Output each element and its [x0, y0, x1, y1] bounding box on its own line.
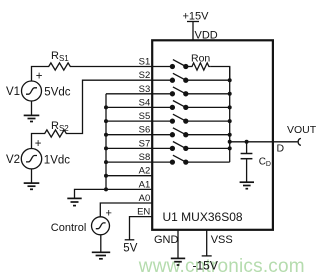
- node S5 tap: [104, 119, 108, 123]
- node bus S2: [228, 78, 232, 82]
- switch S5: [152, 114, 230, 123]
- switch S1: [152, 60, 191, 69]
- node S4 tap: [104, 105, 108, 109]
- svg-text:S1: S1: [139, 57, 151, 68]
- svg-text:CD: CD: [259, 156, 271, 168]
- switch S8: [152, 155, 230, 164]
- wire S6 pin: [106, 134, 152, 136]
- ground (V1): [24, 115, 40, 121]
- svg-text:S6: S6: [139, 125, 151, 136]
- node S6 tap: [104, 133, 108, 137]
- VDD power stub: [187, 22, 199, 41]
- wire V1 top to RS1: [32, 67, 47, 82]
- svg-text:Control: Control: [51, 222, 86, 234]
- wire V1 to ground: [31, 101, 33, 116]
- svg-text:GND: GND: [154, 234, 179, 246]
- node A1 tap: [104, 187, 108, 191]
- bus S3-A1 vertical: [105, 94, 107, 190]
- resistor Ron: [191, 63, 211, 70]
- svg-text:S2: S2: [139, 70, 151, 81]
- wire EN pin to 5V stub: [130, 217, 153, 240]
- source Control: [92, 217, 110, 235]
- wire V2 to ground: [31, 169, 33, 183]
- wire S5 pin: [106, 120, 152, 122]
- switch S6: [152, 128, 230, 137]
- wire S1 from RS1 to pin: [73, 66, 153, 68]
- ground (CD): [240, 182, 254, 189]
- wire S4 pin: [106, 106, 152, 108]
- wire A0 pin from Control: [100, 203, 152, 217]
- wire S7 pin: [106, 147, 152, 149]
- bus vertical (switch outputs): [229, 67, 231, 163]
- svg-text:Ron: Ron: [191, 53, 210, 65]
- node S8 tap: [104, 160, 108, 164]
- svg-text:RS1: RS1: [51, 50, 69, 63]
- svg-text:A0: A0: [139, 193, 151, 204]
- svg-text:-15V: -15V: [193, 259, 218, 273]
- ground (GND pin): [171, 258, 185, 265]
- resistor RS2: [43, 130, 69, 137]
- svg-text:www.cntronics.com: www.cntronics.com: [138, 256, 305, 277]
- svg-text:A1: A1: [139, 179, 151, 190]
- node bus S5: [228, 119, 232, 123]
- wire S3 pin: [106, 93, 152, 95]
- capacitor CD: [241, 142, 253, 182]
- wire V2 top to RS2: [32, 134, 43, 149]
- -15V power bar: [202, 255, 212, 257]
- wire S8 pin: [106, 161, 152, 163]
- wire S2 vertical from RS2: [69, 80, 153, 133]
- switch S4: [152, 101, 230, 110]
- source V1: [22, 81, 42, 101]
- wire D output: [230, 141, 298, 143]
- svg-text:+: +: [106, 208, 112, 220]
- svg-text:S4: S4: [139, 98, 151, 109]
- svg-text:D: D: [277, 143, 285, 155]
- wire Control to ground: [100, 235, 102, 252]
- ground (V2): [24, 183, 40, 189]
- svg-text:VDD: VDD: [195, 30, 218, 42]
- switch S2: [152, 73, 230, 82]
- GND pin stub: [177, 230, 179, 258]
- wire Ron to bus: [211, 67, 230, 81]
- svg-text:+15V: +15V: [183, 11, 210, 23]
- svg-text:U1 MUX36S08: U1 MUX36S08: [163, 210, 243, 224]
- resistor RS1: [47, 63, 73, 70]
- node bus S3: [228, 92, 232, 96]
- node bus S7: [228, 146, 232, 150]
- svg-text:V2: V2: [6, 154, 20, 166]
- switch S7: [152, 142, 230, 151]
- node A2 tap: [104, 174, 108, 178]
- svg-text:A2: A2: [139, 166, 151, 177]
- node S7 tap: [104, 146, 108, 150]
- svg-text:S3: S3: [139, 84, 151, 95]
- svg-text:5Vdc: 5Vdc: [44, 86, 70, 98]
- port VOUT: [298, 138, 301, 145]
- node bus D: [228, 140, 232, 144]
- svg-text:S8: S8: [139, 152, 151, 163]
- svg-text:S5: S5: [139, 111, 151, 122]
- node bus S6: [228, 133, 232, 137]
- node bus S4: [228, 105, 232, 109]
- node CD tap: [245, 140, 249, 144]
- svg-text:EN: EN: [137, 207, 150, 218]
- junction dots: [104, 78, 249, 191]
- switch S3: [152, 87, 230, 96]
- svg-text:S7: S7: [139, 138, 151, 149]
- svg-text:1Vdc: 1Vdc: [44, 154, 70, 166]
- ground (A1): [67, 198, 81, 205]
- VSS pin stub: [206, 230, 208, 256]
- wire A1 pin to ground: [75, 189, 153, 198]
- svg-text:5V: 5V: [123, 242, 137, 254]
- wire A2 pin: [106, 175, 152, 177]
- ground (Control): [92, 252, 110, 258]
- IC body U1: [152, 40, 273, 230]
- 5V power bar: [125, 239, 135, 241]
- svg-text:+: +: [35, 138, 42, 150]
- svg-text:VSS: VSS: [211, 234, 233, 246]
- svg-text:VOUT: VOUT: [287, 124, 317, 136]
- svg-text:+: +: [36, 70, 43, 82]
- source V2: [21, 149, 41, 169]
- svg-text:RS2: RS2: [51, 120, 69, 133]
- svg-text:V1: V1: [6, 86, 20, 98]
